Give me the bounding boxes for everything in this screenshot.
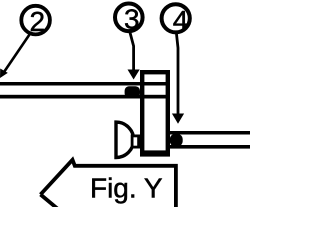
leader arrow for 4 (down to pin 4) [172, 34, 184, 124]
circled label 4 [162, 4, 190, 36]
knob stem rectangle [132, 136, 139, 147]
pin 4 (black pin at right face of block) [170, 134, 183, 146]
leader line for 2 with arrowhead [0, 35, 30, 79]
svg-text:3: 3 [124, 4, 140, 35]
figure banner arrow outline [41, 160, 176, 210]
circled label 2 [21, 6, 50, 37]
svg-text:Fig. Y: Fig. Y [90, 172, 163, 203]
svg-text:2: 2 [30, 6, 46, 37]
pin 3 (black set-pin at left face of block) [125, 86, 140, 98]
circled label 3 [115, 3, 143, 34]
figure caption text [90, 172, 163, 203]
svg-text:4: 4 [173, 5, 189, 36]
lower rod (double line) to the right [168, 131, 250, 149]
leader arrow for 3 (down to pin 3) [128, 33, 140, 80]
block body (slide bearing) [140, 72, 170, 156]
upper shaft rod (double line), passes through block [0, 82, 166, 99]
knob (D-shaped button on left of block) [116, 122, 134, 157]
